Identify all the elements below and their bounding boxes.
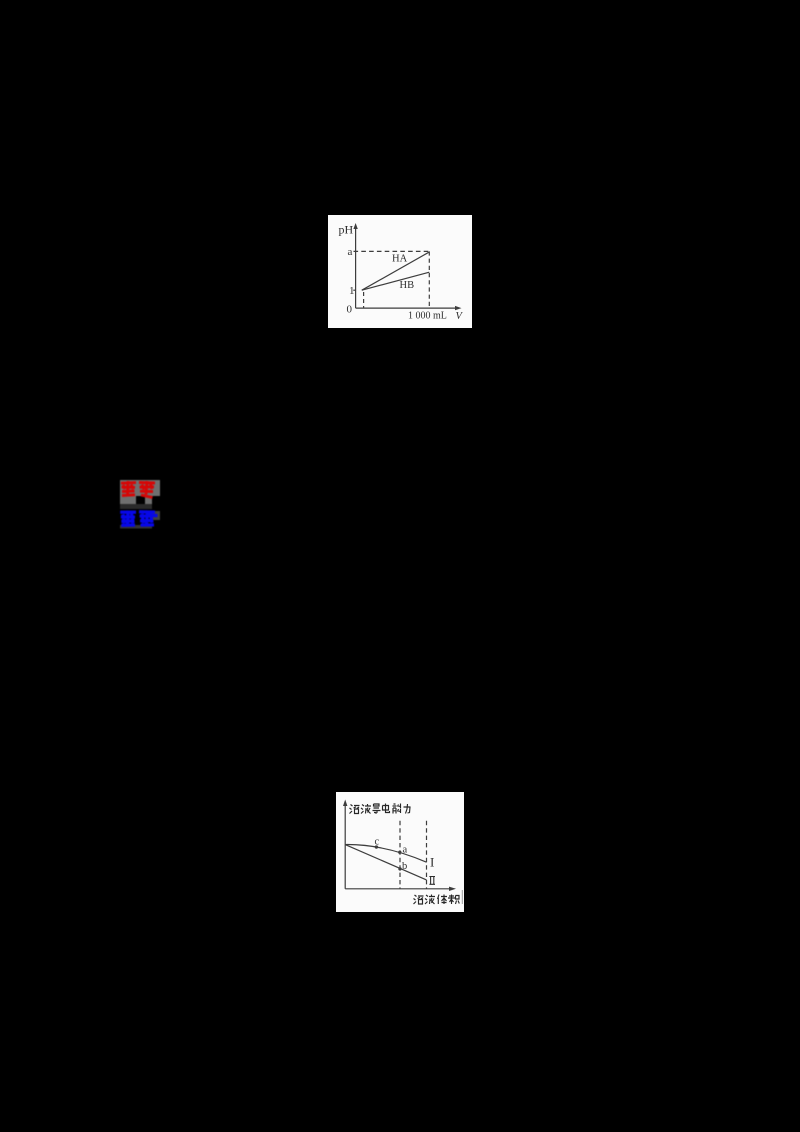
char 导 bbox=[372, 804, 380, 814]
point a bbox=[398, 851, 401, 854]
x-axis arrowhead bbox=[449, 887, 456, 891]
label II (curve II, roman numeral) bbox=[429, 877, 435, 885]
char 液 bbox=[361, 804, 371, 814]
y-axis arrowhead bbox=[353, 223, 357, 229]
svg-text:0: 0 bbox=[347, 304, 353, 316]
dashed vertical at start volume bbox=[363, 292, 365, 308]
scan artifact line bbox=[461, 890, 463, 904]
x-axis bbox=[356, 307, 457, 309]
char 能 bbox=[392, 804, 400, 814]
char 液 (bottom) bbox=[425, 895, 435, 905]
dark strip under highlight bbox=[120, 504, 152, 509]
svg-text:b: b bbox=[402, 861, 407, 872]
dashed vertical line 1 bbox=[399, 821, 401, 889]
gray patch right of blue text bbox=[152, 511, 160, 520]
char 力 bbox=[403, 804, 410, 814]
svg-text:pH: pH bbox=[339, 223, 354, 237]
y-axis bbox=[355, 227, 357, 308]
red/blue annotation marks with gray highlight bbox=[119, 479, 162, 530]
char 体 bbox=[437, 895, 447, 905]
curve II bbox=[345, 845, 426, 880]
svg-text:HB: HB bbox=[400, 280, 415, 291]
svg-text:a: a bbox=[348, 246, 353, 258]
black corner of highlight bbox=[152, 496, 160, 504]
svg-text:c: c bbox=[374, 837, 379, 848]
dashed horizontal at pH=a bbox=[354, 250, 430, 252]
black notch in highlight bbox=[136, 496, 145, 504]
gray highlight block bbox=[120, 480, 160, 504]
svg-text:HA: HA bbox=[392, 254, 408, 265]
curve I bbox=[345, 845, 426, 863]
svg-text:1 000 mL: 1 000 mL bbox=[408, 311, 447, 322]
y-axis bbox=[344, 804, 346, 889]
curve HA bbox=[362, 252, 429, 290]
svg-text:V: V bbox=[456, 311, 464, 322]
char 积 bbox=[448, 895, 459, 905]
dashed vertical at V=1000mL bbox=[428, 251, 430, 308]
dark strip below blue text bbox=[120, 525, 152, 529]
blue scribble char 2 bbox=[139, 510, 158, 525]
point b bbox=[398, 867, 401, 870]
svg-text:a: a bbox=[402, 845, 407, 856]
char 溶 bbox=[349, 805, 359, 814]
red scribble char 1 bbox=[121, 481, 136, 496]
x-axis arrowhead bbox=[455, 306, 462, 310]
dashed vertical line 2 bbox=[425, 821, 427, 889]
axis title: 溶液导电能力 (drawn strokes) bbox=[349, 804, 410, 814]
svg-text:1: 1 bbox=[349, 285, 355, 297]
red scribble char 2 bbox=[139, 481, 155, 498]
axis title: 溶液体积 (drawn strokes) bbox=[413, 895, 459, 905]
tick pH=1 bbox=[353, 289, 355, 291]
char 电 bbox=[382, 804, 389, 813]
point c bbox=[374, 845, 377, 848]
svg-text:I: I bbox=[430, 855, 434, 870]
figure 2: conductivity vs volume chart (white panel) bbox=[336, 792, 464, 912]
char 溶 (bottom) bbox=[413, 895, 423, 904]
curve HB bbox=[362, 272, 430, 290]
figure 1: pH vs V chart (white panel) bbox=[328, 215, 472, 328]
y-axis arrowhead bbox=[343, 800, 347, 807]
x-axis bbox=[345, 888, 451, 890]
blue scribble char 1 bbox=[120, 510, 136, 525]
